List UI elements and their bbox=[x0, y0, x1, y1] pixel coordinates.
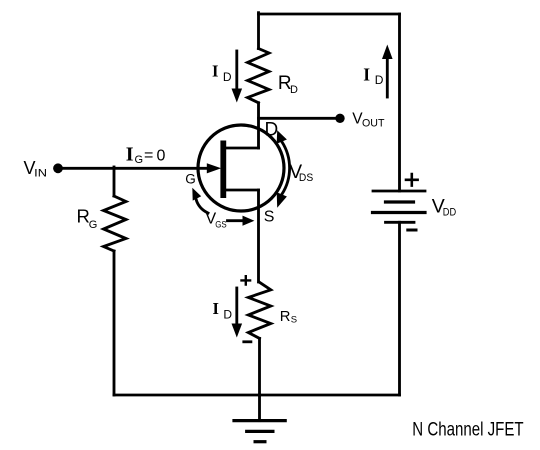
arrow: ID current through RS bbox=[232, 288, 243, 338]
minus sign at RS bottom bbox=[244, 340, 251, 343]
svg-text:OUT: OUT bbox=[362, 118, 385, 130]
node: VIN terminal dot bbox=[53, 163, 63, 173]
svg-text:IN: IN bbox=[34, 167, 47, 179]
plus sign at RS top bbox=[242, 276, 251, 284]
svg-text:D: D bbox=[375, 73, 384, 87]
svg-text:I: I bbox=[363, 64, 370, 84]
svg-text:I: I bbox=[212, 62, 218, 81]
svg-text:G: G bbox=[135, 154, 144, 166]
label VIN bbox=[24, 158, 48, 179]
label VDD bbox=[432, 196, 456, 219]
wire: RD top lead bbox=[257, 13, 260, 49]
svg-text:I: I bbox=[126, 144, 134, 166]
arrow: VGS straight arrow toward S bbox=[228, 216, 255, 226]
wire: bottom ground rail bbox=[114, 394, 400, 397]
wire: RD bottom lead down to drain bbox=[257, 103, 260, 148]
transistor Q1 gate arrowhead bbox=[207, 163, 221, 173]
svg-text:N Channel JFET: N Channel JFET bbox=[412, 419, 524, 440]
svg-text:D: D bbox=[223, 70, 232, 84]
svg-text:D: D bbox=[265, 120, 279, 141]
battery VDD plates bbox=[373, 191, 426, 222]
battery plus terminal mark bbox=[406, 174, 418, 186]
wire: source vertical from transistor to RS bbox=[257, 190, 260, 282]
wire: gate lead from VIN bbox=[58, 167, 208, 170]
wire: RG branch from gate node down bbox=[113, 167, 116, 196]
label VOUT bbox=[352, 111, 384, 130]
label IG = 0 on gate wire bbox=[126, 144, 166, 167]
label VDS bbox=[289, 162, 313, 184]
wire: VOUT branch bbox=[259, 117, 339, 120]
battery minus terminal mark bbox=[408, 229, 416, 232]
label RS bbox=[280, 309, 297, 326]
ground bar 1 bbox=[234, 419, 285, 422]
label RG bbox=[77, 206, 98, 232]
svg-text:=: = bbox=[144, 147, 153, 164]
svg-text:DS: DS bbox=[299, 172, 313, 184]
wire: right rail lower (battery - plate down to ground rail) bbox=[398, 222, 401, 395]
wire: right rail upper (top rail down to battery + plate) bbox=[398, 14, 401, 191]
svg-text:D: D bbox=[290, 84, 298, 96]
wire: RG bottom down to ground rail bbox=[113, 251, 116, 395]
transistor Q1 drain lead inside body bbox=[226, 147, 259, 150]
arrow: VGS curved arrow toward G bbox=[192, 188, 208, 213]
ground bar 3 bbox=[255, 440, 265, 443]
arc: VDS measurement arc with arrowheads bbox=[277, 130, 290, 208]
label RD bbox=[278, 73, 298, 96]
transistor Q1 source lead inside body bbox=[226, 189, 259, 192]
svg-text:G: G bbox=[185, 172, 196, 187]
arrow: ID current up the right rail bbox=[382, 45, 393, 98]
label ID (right) bbox=[363, 64, 384, 87]
label VGS bbox=[206, 210, 227, 230]
resistor RD bbox=[248, 49, 270, 103]
resistor RG bbox=[104, 196, 127, 251]
wire: top rail from drain branch to VDD branch bbox=[259, 13, 400, 16]
node: VOUT terminal dot bbox=[335, 114, 344, 123]
label ID (top) bbox=[212, 62, 232, 84]
ground bar 2 bbox=[247, 430, 273, 433]
svg-text:DD: DD bbox=[443, 206, 456, 218]
transistor Q1 gate bar bbox=[220, 141, 226, 199]
svg-text:GS: GS bbox=[215, 219, 227, 230]
resistor RS bbox=[248, 282, 270, 338]
svg-text:G: G bbox=[89, 219, 98, 231]
transistor Q1 body circle bbox=[198, 125, 284, 211]
svg-text:S: S bbox=[291, 315, 297, 326]
label ID (bottom) bbox=[213, 299, 233, 322]
arrow: ID current into drain (top left of RD) bbox=[232, 51, 243, 103]
svg-text:S: S bbox=[264, 208, 275, 225]
svg-text:0: 0 bbox=[157, 148, 166, 165]
wire: RS bottom to ground rail bbox=[258, 338, 261, 395]
svg-text:R: R bbox=[280, 309, 291, 325]
svg-text:I: I bbox=[213, 299, 219, 318]
ground stub below rail bbox=[258, 395, 261, 421]
svg-text:D: D bbox=[223, 307, 232, 321]
